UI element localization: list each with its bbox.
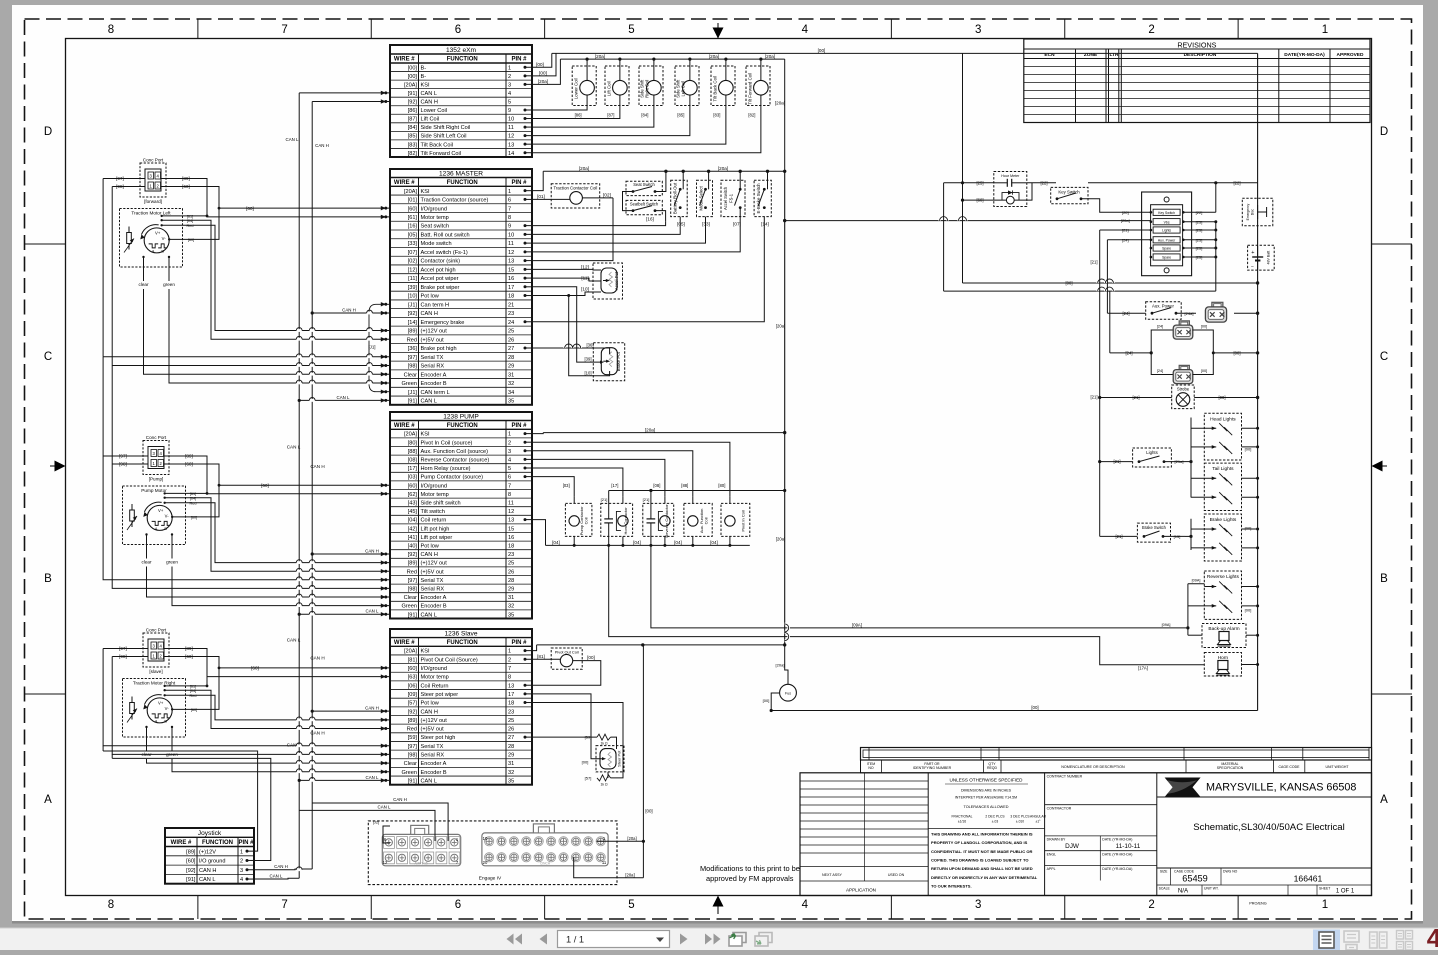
svg-text:B: B — [44, 573, 52, 585]
svg-text:[85]: [85] — [408, 134, 418, 140]
wire [16] seat switch to pin9 — [532, 222, 666, 226]
connector plug icon — [1212, 302, 1223, 307]
svg-text:Motor temp: Motor temp — [421, 492, 449, 498]
svg-text:[60]: [60] — [408, 206, 418, 212]
svg-text:Hour Meter: Hour Meter — [1001, 174, 1020, 178]
wire [21] suppression line — [609, 490, 785, 492]
svg-text:Reverse Contactor (source): Reverse Contactor (source) — [421, 458, 490, 464]
svg-text:[22]: [22] — [1196, 210, 1203, 215]
connector pair circuit — [1110, 352, 1151, 354]
switch Seatbelt Switch — [626, 200, 662, 214]
svg-text:Horn Relay (source): Horn Relay (source) — [421, 466, 471, 472]
svg-text:CAN H: CAN H — [342, 308, 356, 313]
svg-text:[98]: [98] — [408, 753, 418, 759]
svg-text:[15]: [15] — [1174, 534, 1181, 539]
svg-text:[57]: [57] — [408, 701, 418, 707]
svg-text:[20a]: [20a] — [625, 873, 634, 878]
svg-text:±1°: ±1° — [1036, 820, 1042, 824]
svg-text:65459: 65459 — [1182, 874, 1208, 884]
wires PUMP coil sources — [532, 477, 574, 497]
svg-text:[33]: [33] — [702, 221, 710, 226]
svg-text:[61]: [61] — [408, 215, 418, 221]
svg-text:17: 17 — [508, 692, 514, 698]
svg-text:35: 35 — [508, 612, 514, 618]
svg-text:2: 2 — [508, 74, 511, 80]
lights Reverse Lights — [1204, 571, 1241, 619]
wire eXm CAN H to left trunk — [312, 100, 390, 102]
svg-text:34: 34 — [508, 390, 514, 396]
svg-text:(+)5V out: (+)5V out — [421, 337, 445, 343]
svg-text:Pivot In Coil (source): Pivot In Coil (source) — [421, 440, 473, 446]
motor Pump Motor — [123, 486, 186, 545]
svg-text:[00]: [00] — [645, 809, 652, 814]
svg-text:1 / 1: 1 / 1 — [566, 935, 584, 945]
svg-text:Pump Contactor (source): Pump Contactor (source) — [421, 475, 484, 481]
svg-text:[89]: [89] — [408, 718, 418, 724]
svg-text:11: 11 — [508, 125, 514, 131]
svg-text:PIN #: PIN # — [511, 57, 527, 63]
svg-text:[25]: [25] — [1196, 237, 1203, 242]
svg-text:E-Brake Switch: E-Brake Switch — [756, 183, 761, 214]
wire lights returns — [1242, 427, 1258, 429]
coil Lower Coil — [572, 66, 596, 106]
svg-text:DATE (YR-MO-DA): DATE (YR-MO-DA) — [1102, 867, 1132, 871]
svg-text:A: A — [44, 794, 52, 806]
svg-text:5: 5 — [628, 24, 634, 36]
svg-text:CAN L: CAN L — [199, 877, 215, 883]
svg-text:Red: Red — [407, 337, 417, 343]
svg-text:CAN H: CAN H — [421, 311, 438, 317]
unless otherwise specified box — [1044, 773, 1046, 896]
wire [04] coil return bus — [546, 544, 750, 546]
svg-text:Red: Red — [407, 569, 417, 575]
svg-text:23: 23 — [508, 311, 514, 317]
svg-text:3: 3 — [975, 24, 981, 36]
wire [02] contactor sink — [532, 198, 613, 261]
svg-text:[20a]: [20a] — [776, 663, 785, 668]
svg-text:Coil: Coil — [583, 517, 588, 524]
strobe light — [1172, 385, 1195, 409]
svg-text:2: 2 — [508, 657, 511, 663]
svg-text:V+: V+ — [158, 508, 164, 513]
wire strobe row — [1100, 397, 1172, 399]
svg-text:Pot low: Pot low — [421, 701, 440, 707]
svg-text:11: 11 — [602, 860, 607, 865]
svg-text:C: C — [44, 351, 52, 363]
svg-text:18: 18 — [508, 294, 514, 300]
svg-text:V+: V+ — [155, 230, 161, 235]
svg-text:[10]: [10] — [581, 287, 589, 292]
svg-text:[60]: [60] — [191, 515, 197, 519]
svg-text:Encoder A: Encoder A — [421, 761, 447, 767]
svg-text:±.010: ±.010 — [1016, 820, 1024, 824]
switch Lights — [1133, 448, 1172, 467]
connector plug icon — [1179, 321, 1189, 326]
svg-text:15: 15 — [508, 267, 514, 273]
svg-text:DIRECTLY OR INDIRECTLY IN ANY: DIRECTLY OR INDIRECTLY IN ANY WAY DETRIM… — [931, 875, 1038, 880]
svg-text:CONTRACTOR: CONTRACTOR — [1047, 806, 1072, 810]
svg-text:B: B — [1380, 573, 1388, 585]
svg-text:[97]: [97] — [408, 578, 418, 584]
svg-text:20: 20 — [483, 860, 488, 865]
wires group1 motor to MASTER — [190, 215, 208, 217]
svg-text:1 OF 1: 1 OF 1 — [1336, 889, 1355, 895]
svg-text:Accel pot high: Accel pot high — [421, 267, 456, 273]
wire [20a] MASTER KSI bus — [543, 170, 785, 172]
svg-text:D: D — [44, 126, 52, 138]
svg-text:CAN H: CAN H — [421, 100, 438, 106]
svg-text:[92]: [92] — [186, 868, 196, 874]
svg-text:[20a]: [20a] — [776, 536, 785, 541]
svg-text:Modifications to this print to: Modifications to this print to be — [700, 864, 800, 873]
svg-text:[J1]: [J1] — [368, 345, 375, 350]
wires joystick — [103, 751, 258, 851]
svg-text:V-: V- — [165, 706, 170, 711]
wire [20a] coil supply bus — [560, 58, 784, 60]
wire [21] lights trunk — [1099, 230, 1101, 536]
battery charging receptacle — [1242, 198, 1273, 225]
svg-text:Aux. Power: Aux. Power — [1158, 239, 1176, 243]
svg-text:±.03: ±.03 — [992, 820, 999, 824]
svg-text:Encoder B: Encoder B — [421, 381, 447, 387]
svg-text:[92]: [92] — [408, 709, 418, 715]
svg-text:1238 PUMP: 1238 PUMP — [443, 413, 479, 420]
svg-text:8: 8 — [508, 492, 511, 498]
svg-text:[22]: [22] — [1041, 180, 1048, 185]
svg-text:Aux. Power: Aux. Power — [1152, 304, 1175, 309]
svg-text:1: 1 — [508, 189, 511, 195]
svg-text:UNLESS OTHERWISE SPECIFIED: UNLESS OTHERWISE SPECIFIED — [950, 778, 1024, 783]
toolbar page layout icons right — [1313, 930, 1340, 951]
svg-text:Conc Port: Conc Port — [146, 435, 167, 440]
svg-text:approved by FM approvals: approved by FM approvals — [706, 874, 794, 883]
svg-text:Reverse Lights: Reverse Lights — [1207, 574, 1240, 580]
svg-text:11: 11 — [508, 241, 514, 247]
svg-text:[89]: [89] — [408, 561, 418, 567]
capacitor in Reverse Contactor box — [650, 491, 652, 519]
svg-text:[21a]: [21a] — [1175, 459, 1184, 464]
svg-text:1: 1 — [1322, 899, 1328, 911]
svg-text:[40]: [40] — [408, 544, 418, 550]
svg-text:FS-1: FS-1 — [729, 193, 734, 203]
wire CAN L to engage — [299, 810, 435, 841]
svg-text:Brake Switch: Brake Switch — [1142, 525, 1167, 530]
svg-text:Brake pot high: Brake pot high — [421, 346, 457, 352]
svg-text:Seatbelt Switch: Seatbelt Switch — [630, 201, 659, 206]
svg-text:8: 8 — [508, 215, 511, 221]
svg-text:[00]: [00] — [1201, 369, 1207, 373]
wire [21] into Lights fuse — [1100, 229, 1151, 231]
svg-text:[04]: [04] — [187, 219, 193, 223]
svg-text:CAN L: CAN L — [421, 778, 437, 784]
svg-text:CAN H: CAN H — [393, 797, 407, 802]
svg-text:[21]: [21] — [643, 497, 650, 502]
lights Tail Lights — [1204, 463, 1241, 510]
svg-text:Encoder A: Encoder A — [421, 595, 447, 601]
svg-text:Lift Coil: Lift Coil — [607, 81, 612, 96]
wire steer pot bottom — [597, 777, 608, 779]
svg-text:CAN L: CAN L — [270, 873, 283, 878]
svg-text:[00]: [00] — [1031, 705, 1038, 710]
svg-text:APPLICATION: APPLICATION — [846, 888, 876, 893]
svg-text:CAN L: CAN L — [287, 638, 301, 643]
svg-text:[03]: [03] — [563, 483, 570, 488]
svg-text:7: 7 — [508, 483, 511, 489]
svg-text:Traction Motor Right: Traction Motor Right — [133, 681, 176, 686]
wire [00] B- bus top — [552, 52, 1258, 54]
svg-text:CAN H: CAN H — [365, 706, 379, 711]
svg-text:4: 4 — [802, 899, 809, 911]
svg-text:DATE(YR-MO-DA): DATE(YR-MO-DA) — [1284, 52, 1325, 58]
logo landoll — [1165, 778, 1201, 798]
coil Side Shift Left Coil — [675, 66, 699, 106]
svg-text:[97]: [97] — [408, 744, 418, 750]
wire [36] brake pot high — [532, 347, 605, 349]
svg-text:[04]: [04] — [408, 518, 418, 524]
svg-text:[91]: [91] — [408, 612, 418, 618]
zone arrow bottom center — [717, 899, 719, 914]
svg-text:[60]: [60] — [977, 198, 984, 203]
svg-text:CAN H: CAN H — [421, 552, 438, 558]
svg-text:32: 32 — [508, 381, 514, 387]
svg-text:Accel pot wiper: Accel pot wiper — [421, 276, 459, 282]
svg-text:35: 35 — [508, 399, 514, 405]
svg-text:23: 23 — [508, 552, 514, 558]
svg-text:CAN L: CAN L — [421, 399, 437, 405]
wire fuse to trunk — [785, 645, 788, 684]
svg-text:[24]: [24] — [1126, 351, 1133, 356]
svg-text:29: 29 — [508, 587, 514, 593]
svg-text:[04]: [04] — [190, 689, 196, 693]
svg-text:[04]: [04] — [633, 540, 641, 545]
switch — [721, 180, 745, 216]
svg-text:6: 6 — [508, 475, 511, 481]
svg-text:I/O/ground: I/O/ground — [421, 483, 447, 489]
svg-text:[08]: [08] — [408, 458, 418, 464]
wire CAN L into Slave — [299, 779, 390, 781]
svg-text:[60]: [60] — [246, 206, 254, 211]
svg-text:(+)5V out: (+)5V out — [421, 727, 445, 733]
motor Traction Motor Left — [120, 209, 183, 268]
svg-text:Coil Return: Coil Return — [421, 683, 449, 689]
svg-text:[85]: [85] — [677, 112, 684, 117]
wire hops PUMP rows — [296, 561, 302, 564]
svg-text:B-: B- — [421, 65, 427, 71]
svg-text:[07]: [07] — [408, 250, 418, 256]
svg-text:A: A — [152, 249, 155, 253]
svg-text:[60]: [60] — [408, 666, 418, 672]
svg-text:Lights: Lights — [1162, 229, 1171, 233]
wire CAN L into PUMP — [299, 613, 390, 615]
wire hops MASTER rows — [367, 312, 373, 315]
svg-text:[01]: [01] — [408, 198, 418, 204]
svg-text:CAN term L: CAN term L — [421, 390, 450, 396]
svg-text:Steer pot high: Steer pot high — [421, 735, 456, 741]
svg-text:[60]: [60] — [408, 483, 418, 489]
svg-text:Lift Coil: Lift Coil — [421, 117, 440, 123]
svg-text:PIN #: PIN # — [238, 840, 254, 846]
svg-text:2: 2 — [1148, 899, 1154, 911]
svg-text:[25]: [25] — [1196, 255, 1203, 260]
coil Pump Contactor Coil — [565, 503, 592, 536]
wire horn contact feed — [609, 523, 1205, 665]
svg-text:[17]: [17] — [611, 483, 618, 488]
svg-text:Traction Contactor Coil: Traction Contactor Coil — [554, 185, 598, 190]
svg-text:Brake Pot: Brake Pot — [616, 351, 621, 371]
svg-text:Serial RX: Serial RX — [421, 587, 445, 593]
connector 12-pin — [382, 834, 460, 865]
svg-text:1: 1 — [1322, 24, 1328, 36]
svg-text:[88]: [88] — [681, 483, 688, 488]
wires group2 to PUMP rows — [103, 455, 129, 457]
connector 20-pin — [482, 833, 608, 866]
svg-text:DATE (YR-MO-DA): DATE (YR-MO-DA) — [1102, 838, 1132, 842]
svg-text:Spare: Spare — [1162, 247, 1171, 251]
coil Tilt Forward Coil — [746, 66, 770, 106]
svg-text:Conc Port: Conc Port — [146, 628, 167, 633]
terminator jumper J1 MASTER — [369, 304, 390, 391]
svg-text:Coil return: Coil return — [421, 518, 447, 524]
svg-text:Fus: Fus — [785, 692, 791, 696]
svg-text:[82]: [82] — [748, 112, 755, 117]
svg-text:[60]: [60] — [188, 238, 194, 242]
svg-text:[91]: [91] — [408, 399, 418, 405]
svg-text:Lights: Lights — [1146, 450, 1157, 455]
wire clear — [143, 257, 145, 281]
svg-text:CAN L: CAN L — [287, 445, 301, 450]
svg-text:[16]: [16] — [408, 224, 418, 230]
svg-text:[08]: [08] — [653, 483, 660, 488]
wire [00] engage to trunk — [642, 645, 644, 878]
svg-text:Serial TX: Serial TX — [421, 355, 444, 361]
svg-text:[39]: [39] — [408, 285, 418, 291]
wire CAN H into Slave — [312, 710, 390, 712]
capacitor in Horn Contactor box — [608, 491, 610, 519]
parts list strip — [861, 748, 1372, 761]
wire [24] into Aux fuse — [1107, 239, 1150, 241]
wire horn feed — [1100, 664, 1205, 666]
wire hops Slave rows — [296, 718, 302, 721]
svg-text:12: 12 — [508, 134, 514, 140]
svg-text:[60]: [60] — [191, 708, 197, 712]
svg-text:[25]: [25] — [1196, 228, 1203, 233]
wire hop joystick CAN H — [296, 868, 302, 871]
svg-text:[42]: [42] — [408, 526, 418, 532]
zone arrow right — [1373, 465, 1387, 467]
svg-text:5: 5 — [508, 100, 511, 106]
zone ticks — [197, 19, 199, 39]
svg-text:32: 32 — [508, 770, 514, 776]
svg-text:[60]: [60] — [186, 859, 196, 865]
svg-text:Seat switch: Seat switch — [421, 224, 450, 230]
pot Steer Pot — [596, 746, 624, 772]
svg-text:[09A]: [09A] — [1192, 579, 1201, 583]
temp sensor resistor — [131, 697, 133, 703]
svg-text:Pivot Out Coil (Source): Pivot Out Coil (Source) — [421, 657, 478, 663]
svg-text:[Pump]: [Pump] — [149, 477, 164, 482]
wire CAN H to engage — [312, 803, 448, 841]
svg-text:28: 28 — [508, 744, 514, 750]
svg-text:[07]: [07] — [733, 221, 741, 226]
svg-text:[20A]: [20A] — [404, 649, 418, 655]
svg-text:[04]: [04] — [190, 496, 196, 500]
svg-text:Steer pot wiper: Steer pot wiper — [421, 692, 459, 698]
svg-text:[05]: [05] — [408, 232, 418, 238]
svg-text:[10]: [10] — [408, 294, 418, 300]
svg-text:USED ON: USED ON — [888, 873, 905, 877]
svg-text:11-10-11: 11-10-11 — [1116, 843, 1141, 850]
svg-text:RETURN UPON DEMAND AND SHALL N: RETURN UPON DEMAND AND SHALL NOT BE USED — [931, 866, 1033, 871]
resistor steer pot high 1k — [532, 736, 597, 738]
hour meter dial — [1006, 196, 1014, 204]
svg-text:26: 26 — [508, 337, 514, 343]
svg-text:PIN #: PIN # — [511, 423, 527, 429]
svg-text:10: 10 — [508, 232, 514, 238]
svg-text:[17]: [17] — [408, 466, 418, 472]
svg-text:FUNCTION: FUNCTION — [447, 57, 478, 63]
svg-text:THIS DRAWING AND ALL INFORMATI: THIS DRAWING AND ALL INFORMATION THEREIN… — [931, 832, 1033, 837]
svg-text:DIMENSIONS ARE IN INCHES: DIMENSIONS ARE IN INCHES — [961, 789, 1012, 793]
svg-text:4: 4 — [240, 877, 243, 883]
case code row — [1157, 867, 1372, 869]
wire fuse left stub to ground bus — [771, 693, 779, 711]
switch Mode Select — [697, 180, 713, 216]
svg-text:[21]: [21] — [1133, 395, 1140, 400]
svg-text:Green: Green — [401, 604, 417, 610]
svg-text:Emergency brake: Emergency brake — [421, 320, 465, 326]
svg-text:Serial RX: Serial RX — [421, 364, 445, 370]
svg-text:±1/16: ±1/16 — [958, 820, 966, 824]
svg-text:3: 3 — [240, 868, 243, 874]
svg-text:CONTRACT NUMBER: CONTRACT NUMBER — [1047, 775, 1083, 779]
toolbar snapshot icons — [729, 933, 746, 947]
svg-text:[10]: [10] — [585, 371, 592, 376]
wire clear — [146, 727, 148, 751]
svg-text:[59]: [59] — [585, 735, 592, 740]
zone arrow top center — [717, 23, 719, 38]
svg-text:3 DEC PLCS: 3 DEC PLCS — [1010, 815, 1030, 819]
svg-text:Disc: Disc — [1251, 208, 1255, 215]
wire [10] brake pot low — [569, 296, 610, 376]
wire reverse feed — [1188, 583, 1204, 585]
hour meter box — [994, 172, 1027, 207]
svg-text:[20]: [20] — [1122, 210, 1129, 215]
svg-text:Key Switch: Key Switch — [1058, 190, 1080, 195]
svg-text:CONFIDENTIAL. IT MUST NOT BE M: CONFIDENTIAL. IT MUST NOT BE MADE PUBLIC… — [931, 849, 1032, 854]
wire CAN L into MASTER — [299, 399, 390, 401]
svg-text:Schematic,SL30/40/50AC Electri: Schematic,SL30/40/50AC Electrical — [1193, 822, 1344, 833]
svg-text:[33]: [33] — [408, 241, 418, 247]
svg-text:clear: clear — [139, 282, 149, 287]
svg-text:CAGE CODE: CAGE CODE — [1278, 765, 1300, 769]
svg-text:−: − — [1251, 264, 1254, 270]
wire [22] up to top right — [1215, 183, 1217, 213]
parts list header — [861, 760, 1372, 773]
svg-text:V+: V+ — [158, 700, 164, 705]
svg-text:Mode switch: Mode switch — [421, 241, 452, 247]
svg-text:9: 9 — [508, 108, 511, 114]
wire [09] steer pot wiper — [532, 694, 602, 759]
connector Conc Port [slave] — [143, 633, 169, 667]
svg-text:[80]: [80] — [408, 440, 418, 446]
wire eXm pin1 to B- bus — [532, 53, 552, 67]
svg-text:[24]: [24] — [1157, 325, 1163, 329]
toolbar first page button — [507, 934, 523, 945]
svg-text:9: 9 — [508, 224, 511, 230]
svg-text:B: B — [161, 249, 164, 253]
svg-text:Tilt switch: Tilt switch — [421, 509, 445, 515]
svg-text:[06]: [06] — [408, 683, 418, 689]
